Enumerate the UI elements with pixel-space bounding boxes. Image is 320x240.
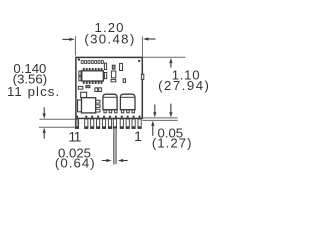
transistor Q1 tab	[78, 100, 82, 112]
bottom pad row (11 pads)	[76, 116, 141, 118]
dimension 1.20 extension line right	[141, 36, 143, 56]
PCB bottom extension line right	[142, 117, 177, 119]
capacitor C12 body (large can right)	[120, 94, 135, 110]
op-amp U1 body	[82, 71, 104, 81]
resistor R3 (horizontal)	[111, 79, 116, 81]
capacitor C6	[111, 71, 115, 78]
pin 8	[97, 119, 100, 129]
svg-text:(27.94): (27.94)	[158, 78, 210, 93]
pin 7	[102, 119, 105, 129]
dimension 0.025 arrow right	[102, 159, 112, 162]
transistor Q1 lead 3	[96, 109, 100, 112]
dimension 1.10 arrow down	[169, 104, 172, 118]
capacitor C2 (left edge lower)	[79, 77, 81, 81]
capacitor C5 (tall rect)	[120, 63, 123, 70]
capacitor C10 (white square)	[81, 92, 87, 97]
svg-text:(30.48): (30.48)	[84, 31, 135, 46]
svg-text:(1.27): (1.27)	[152, 136, 193, 151]
dimension 1.20 extension line left	[74, 36, 76, 55]
pin 11	[75, 119, 78, 129]
pin 9	[91, 119, 94, 129]
pad top-left	[78, 58, 80, 60]
capacitor C1 (left edge upper)	[79, 71, 81, 76]
op-amp U1 (14-pin IC) pins top	[83, 68, 103, 71]
module PCB outline	[76, 57, 142, 118]
dimension 1.20 arrow right	[143, 37, 156, 40]
seating plane line right	[142, 119, 177, 121]
op-amp U1 pins bottom	[83, 81, 103, 84]
pin 6	[108, 119, 111, 129]
capacitor C11 body (large can left)	[103, 94, 117, 110]
capacitor C12 leads	[121, 110, 123, 113]
capacitor C7 (right edge bump)	[141, 74, 143, 79]
resistor R2 (gray square)	[112, 65, 115, 69]
capacitor C3 (right of IC upper)	[104, 63, 106, 69]
transistor Q1 lead 2	[96, 105, 100, 108]
dimension 1.20 arrow left	[62, 38, 74, 41]
pin 10	[85, 119, 88, 129]
transistor Q1 lead 1	[96, 100, 100, 103]
pin 2	[132, 119, 135, 129]
resistor array R1 (row of 7 chip pads)	[81, 61, 103, 64]
pad top-right	[138, 60, 140, 62]
dimension 1.10 arrow up	[169, 58, 172, 68]
long pin (extended lead)	[113, 128, 116, 164]
transistor Q1 body	[82, 98, 96, 113]
resistor R6	[86, 85, 90, 87]
capacitor C4 (right of IC lower)	[104, 73, 106, 79]
dimension 1.10 top extension line	[142, 56, 185, 58]
dimension 0.025 arrow left	[118, 159, 128, 162]
pin 3	[126, 119, 129, 129]
pin tip extension line left	[39, 126, 75, 128]
capacitor C11 leads	[104, 110, 106, 113]
dimension 0.140 arrow down	[43, 107, 46, 118]
dimension 0.140 arrow up	[43, 128, 46, 139]
svg-text:11: 11	[68, 128, 81, 144]
dimension 0.05 arrow down	[153, 105, 156, 118]
pin 4	[120, 119, 123, 129]
pin 1	[138, 119, 141, 129]
resistor R4 (small)	[123, 79, 125, 83]
svg-text:(0.64): (0.64)	[55, 156, 96, 171]
resistor R5	[78, 86, 83, 89]
seating plane extension line left	[40, 118, 76, 120]
dimension 0.05 arrow up	[151, 121, 154, 136]
svg-text:11 plcs.: 11 plcs.	[7, 84, 60, 99]
svg-text:1: 1	[134, 128, 142, 144]
capacitor C8	[95, 88, 98, 92]
capacitor C9	[99, 88, 102, 92]
pin 5 (long pin upper)	[113, 119, 116, 129]
